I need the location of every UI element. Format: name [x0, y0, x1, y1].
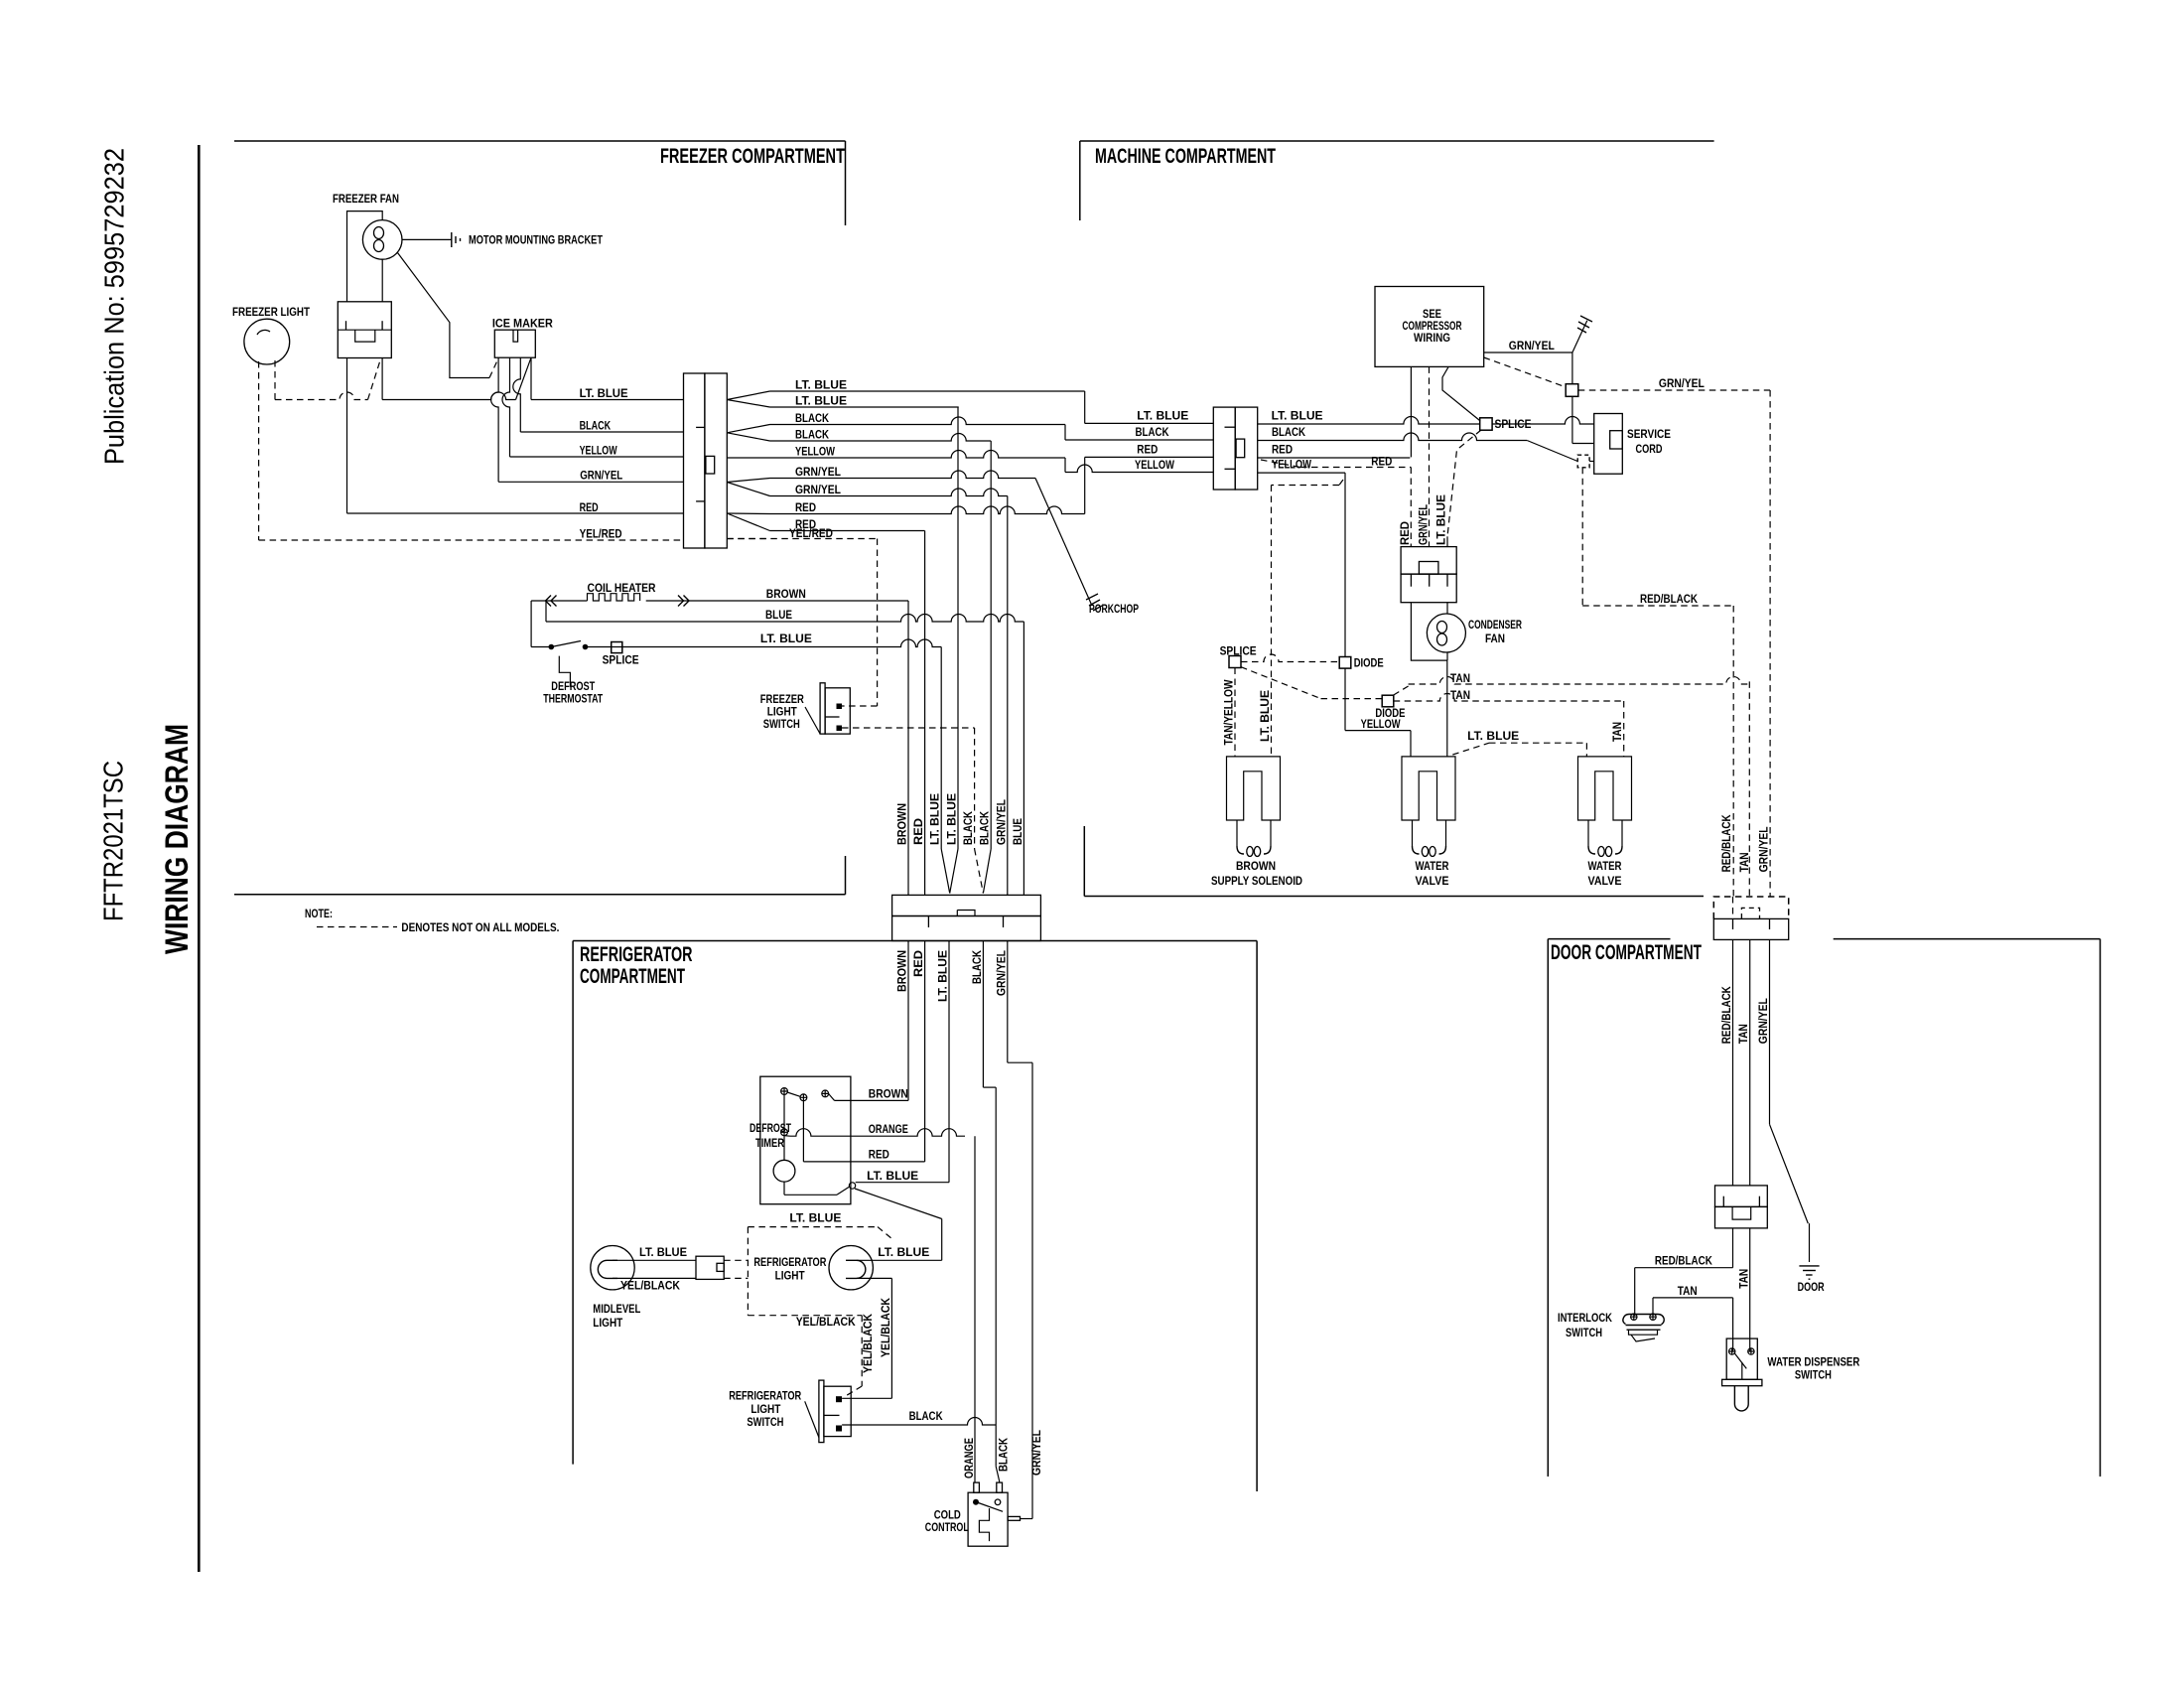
dashed wire TAN/YELLOW splice to solenoid	[1234, 668, 1236, 757]
svg-text:TAN: TAN	[1678, 1286, 1698, 1298]
svg-text:LT. BLUE: LT. BLUE	[947, 793, 959, 845]
freezer light switch divider	[825, 716, 839, 718]
svg-text:LIGHT: LIGHT	[751, 1404, 780, 1416]
wire RED bus to freezer connector	[347, 512, 684, 514]
door compartment border left	[1547, 939, 1549, 1477]
svg-text:ORANGE: ORANGE	[964, 1438, 976, 1478]
door connector dashed shell	[1713, 897, 1788, 918]
svg-text:SERVICE: SERVICE	[1627, 429, 1671, 441]
wire LT.BLUE vertical v3	[940, 647, 942, 850]
svg-text:FAN: FAN	[1485, 633, 1505, 645]
svg-text:LT. BLUE: LT. BLUE	[580, 388, 628, 400]
wire BLACK into cold control	[996, 1467, 999, 1482]
dashed wire TAN lower	[1394, 694, 1624, 701]
dashed wire freezer light to fan connector	[275, 392, 368, 400]
svg-text:BROWN: BROWN	[869, 1089, 908, 1101]
ice maker pin 3 wire to BLACK bus	[513, 357, 520, 432]
svg-text:YELLOW: YELLOW	[795, 447, 835, 459]
svg-text:GRN/YEL: GRN/YEL	[1418, 504, 1430, 545]
wire YEL/RED dashed fan-out	[727, 538, 877, 540]
svg-text:GRN/YEL: GRN/YEL	[1759, 826, 1771, 872]
note dashed sample line	[317, 926, 397, 928]
svg-text:BLACK: BLACK	[1272, 427, 1306, 439]
svg-text:RED/BLACK: RED/BLACK	[1655, 1256, 1713, 1268]
svg-text:BLACK: BLACK	[580, 421, 612, 433]
ice maker pin 2 wire to YELLOW bus	[502, 357, 510, 457]
wire LT.BLUE pin4 to connector	[531, 399, 684, 401]
resistor coil heater	[588, 594, 640, 601]
svg-text:BROWN: BROWN	[1236, 861, 1276, 873]
wire YELLOW connector segment	[1258, 472, 1345, 474]
wire BLACK square to service cord	[1589, 461, 1594, 463]
wire YELLOW bus to connector	[510, 456, 684, 458]
svg-text:DEFROST: DEFROST	[551, 681, 595, 693]
dashed wire TAN upper	[1394, 686, 1409, 695]
refrigerator light switch flange	[819, 1380, 824, 1443]
svg-text:TAN: TAN	[1450, 690, 1470, 702]
refrigerator light switch terminal top	[836, 1396, 842, 1402]
svg-text:RED: RED	[1137, 445, 1158, 457]
chevron left <<	[546, 596, 557, 607]
dashed wire RED to compressor relay	[1261, 460, 1300, 468]
svg-text:BLACK: BLACK	[999, 1437, 1011, 1472]
freezer fan connector divider	[338, 329, 391, 331]
door mid connector upper	[1715, 1186, 1768, 1207]
door mid connector notch	[1732, 1206, 1751, 1219]
svg-text:THERMOSTAT: THERMOSTAT	[543, 694, 603, 706]
refrigerator light lamp symbol	[846, 1260, 866, 1278]
wire TAN to dispenser switch	[1749, 1228, 1751, 1351]
wire LT. BLUE heater line segment b	[586, 639, 942, 647]
refrigerator light switch divider	[824, 1414, 840, 1416]
freezer fan motor windings	[374, 227, 384, 252]
dashed wire GRN/YEL compressor relay lead	[1429, 366, 1431, 546]
wire GRN/YEL down to square	[1571, 352, 1573, 384]
door compartment border top right segment	[1834, 938, 2101, 940]
svg-text:FFTR2021TSC: FFTR2021TSC	[98, 761, 129, 921]
midlevel light lead YEL/BLACK	[613, 1277, 696, 1279]
GRN/YEL junction square	[1566, 384, 1578, 397]
water valve 1 symbol	[1402, 757, 1455, 820]
wire BROWN defrost	[829, 1093, 835, 1100]
cold control terminal right	[995, 1499, 1001, 1505]
connector fan-out triangle GRN/YEL	[727, 479, 769, 496]
svg-text:RED: RED	[913, 818, 925, 845]
svg-text:GRN/YEL: GRN/YEL	[795, 485, 841, 496]
door mid connector tick 1	[1722, 1196, 1724, 1207]
connector fan-out triangle LT. BLUE	[727, 391, 769, 407]
freezer fan connector pin tick left	[345, 321, 347, 330]
door connector body	[1713, 918, 1788, 939]
wire YELLOW step down	[1064, 458, 1066, 473]
wire heater left drop	[530, 601, 532, 647]
svg-text:LT. BLUE: LT. BLUE	[938, 950, 950, 1002]
defrost timer motor wires	[783, 1136, 785, 1161]
condenser fan windings	[1437, 622, 1447, 646]
svg-text:ICE MAKER: ICE MAKER	[492, 318, 554, 330]
connector fan-out triangle RED	[727, 513, 769, 531]
splice square (service cord)	[1480, 418, 1492, 430]
wire RED fan-out 2	[770, 530, 925, 532]
wire GRN/YEL below connector	[1007, 941, 1009, 1063]
refrigerator light lead YEL/BLACK	[857, 1277, 892, 1279]
defrost thermostat contact right	[583, 644, 589, 650]
page divider line	[198, 145, 201, 1572]
freezer fan motor circle	[362, 220, 402, 260]
wire RED/BLACK to interlock	[1732, 1228, 1734, 1268]
water dispenser switch box	[1726, 1338, 1757, 1379]
svg-text:WATER: WATER	[1416, 861, 1450, 873]
defrost timer box	[760, 1076, 851, 1204]
refrigerator light switch body	[824, 1386, 851, 1436]
svg-text:DENOTES NOT ON ALL MODELS.: DENOTES NOT ON ALL MODELS.	[401, 922, 559, 934]
relay tick 3	[1446, 574, 1448, 587]
wire GRN/YEL door	[1769, 939, 1771, 1124]
refrigerator light lead LT.BLUE	[857, 1259, 942, 1261]
cold control right tab	[1008, 1516, 1020, 1520]
defrost timer terminal 4	[781, 1129, 788, 1136]
svg-text:BLACK: BLACK	[963, 810, 975, 845]
svg-text:GRN/YEL: GRN/YEL	[1659, 378, 1705, 390]
svg-text:FREEZER COMPARTMENT: FREEZER COMPARTMENT	[660, 144, 845, 168]
svg-text:SWITCH: SWITCH	[747, 1417, 783, 1429]
machine connector tick lower	[1225, 468, 1236, 470]
freezer-machine connector right half	[705, 373, 727, 548]
wire YELLOW fan-out	[770, 451, 1066, 458]
dashed link fan wire to ice maker pin 1	[489, 358, 498, 378]
splice square (machine left)	[1229, 656, 1241, 668]
svg-text:RED: RED	[1272, 445, 1293, 457]
wire LT.BLUE connector to service cord	[1258, 417, 1594, 424]
condenser fan motor circle	[1427, 614, 1465, 652]
midlevel light connector	[696, 1256, 724, 1279]
svg-text:VALVE: VALVE	[1416, 876, 1449, 888]
porkchop ground symbol	[1086, 594, 1102, 611]
cold control arm	[979, 1503, 1004, 1512]
wire GRN/YEL vertical v7	[1007, 496, 1009, 896]
defrost timer terminal 1	[781, 1088, 788, 1095]
defrost timer motor circle	[773, 1160, 795, 1182]
wire BLUE branch drop	[545, 601, 547, 622]
wire BLUE line	[546, 615, 1024, 622]
dashed wire GRN/YEL to door	[1578, 389, 1770, 391]
ice maker body	[494, 330, 535, 357]
plug square on BLACK	[1577, 455, 1589, 468]
wire GRN/YEL fan-out 1	[770, 471, 1036, 478]
svg-text:RED: RED	[913, 950, 925, 977]
door connector dashed notch	[1741, 908, 1759, 918]
svg-text:FREEZER FAN: FREEZER FAN	[333, 194, 399, 206]
machine compartment border bottom	[1084, 896, 1704, 898]
wire relay LT.BLUE lead	[1446, 536, 1448, 546]
svg-text:YELLOW: YELLOW	[1272, 460, 1311, 472]
freezer compartment border top	[234, 140, 846, 142]
dashed wire switch bottom to BLACK v5	[842, 727, 975, 729]
svg-text:SPLICE: SPLICE	[1220, 646, 1257, 658]
freezer light lead LT.BLUE (dashed)	[274, 360, 276, 400]
wire GRN/YEL porkchop diagonal	[1035, 479, 1092, 607]
svg-text:GRN/YEL: GRN/YEL	[1031, 1430, 1043, 1476]
dashed wire YEL/BLACK	[748, 1315, 862, 1317]
wire RED step up	[1084, 457, 1086, 513]
freezer-machine connector notch	[706, 456, 715, 474]
freezer light lead YEL/RED (dashed)	[258, 361, 260, 540]
compressor relay box upper	[1401, 547, 1456, 575]
svg-text:VALVE: VALVE	[1588, 876, 1622, 888]
machine connector notch	[1236, 439, 1245, 458]
door ground symbol	[1799, 1266, 1819, 1279]
svg-text:CONDENSER: CONDENSER	[1468, 620, 1523, 632]
freezer compartment border right upper	[845, 141, 847, 225]
wire BROWN below connector	[907, 941, 909, 1101]
svg-text:DIODE: DIODE	[1375, 708, 1405, 720]
door mid connector lower	[1715, 1206, 1768, 1228]
svg-text:RED/BLACK: RED/BLACK	[1640, 594, 1699, 606]
wire T2 to RED	[802, 1101, 804, 1162]
svg-text:WATER DISPENSER: WATER DISPENSER	[1767, 1357, 1860, 1369]
machine compartment border top	[1080, 140, 1714, 142]
svg-text:GRN/YEL: GRN/YEL	[1758, 998, 1770, 1044]
svg-text:MIDLEVEL: MIDLEVEL	[593, 1304, 640, 1316]
wire compressor left lead	[1410, 366, 1412, 457]
refrigerator connector tick right	[1003, 916, 1005, 928]
freezer light switch lever	[805, 707, 820, 734]
svg-text:GRN/YEL: GRN/YEL	[580, 471, 622, 483]
svg-text:LIGHT: LIGHT	[767, 707, 797, 719]
machine connector right half	[1235, 407, 1258, 490]
connector fan-out YEL/RED dashed stub	[727, 538, 769, 540]
dashed wire LT.BLUE valve to valve	[1452, 743, 1489, 755]
svg-text:SPLICE: SPLICE	[603, 655, 639, 667]
compressor wiring box	[1375, 287, 1484, 367]
svg-text:BLACK: BLACK	[909, 1411, 944, 1423]
svg-text:DOOR COMPARTMENT: DOOR COMPARTMENT	[1551, 940, 1702, 964]
freezer compartment border right lower	[845, 856, 847, 895]
svg-text:LT. BLUE: LT. BLUE	[867, 1171, 918, 1183]
svg-text:RED: RED	[1400, 521, 1412, 545]
svg-text:SWITCH: SWITCH	[1795, 1370, 1832, 1382]
interlock switch terminal left	[1631, 1314, 1637, 1320]
wire LT.BLUE bus segment	[382, 392, 515, 400]
refrigerator compartment border right	[1256, 941, 1258, 1492]
defrost thermostat body bracket	[559, 656, 570, 687]
svg-text:DIODE: DIODE	[1354, 658, 1384, 670]
chevron right >>	[678, 596, 689, 607]
wire RED defrost	[803, 1161, 924, 1163]
defrost timer terminal 3	[822, 1090, 829, 1097]
splice square (defrost)	[612, 642, 622, 653]
svg-text:COLD: COLD	[934, 1510, 961, 1522]
wire BROWN vertical v1	[907, 601, 909, 895]
svg-text:TAN: TAN	[1612, 722, 1624, 742]
svg-text:SUPPLY SOLENOID: SUPPLY SOLENOID	[1211, 876, 1302, 888]
svg-text:LT. BLUE: LT. BLUE	[760, 633, 812, 645]
defrost thermostat contact left	[549, 644, 555, 650]
refrigerator connector lower	[892, 916, 1041, 941]
dashed wire YEL/RED to switch top	[877, 539, 879, 707]
wire GRN/YEL square to service cord	[1571, 396, 1573, 443]
svg-text:TAN: TAN	[1450, 673, 1470, 685]
dashed wire LT.BLUE light circuit	[748, 1226, 878, 1228]
svg-text:COMPARTMENT: COMPARTMENT	[580, 964, 685, 988]
service cord notch	[1610, 431, 1623, 449]
cold control terminal left	[973, 1499, 979, 1505]
svg-text:SWITCH: SWITCH	[1566, 1328, 1602, 1339]
service cord body	[1594, 414, 1623, 475]
svg-text:RED: RED	[869, 1150, 889, 1162]
wire LT.BLUE vertical v4	[957, 407, 959, 849]
freezer-machine connector tick lower	[696, 500, 705, 502]
svg-text:NOTE:: NOTE:	[305, 909, 333, 920]
svg-text:FREEZER LIGHT: FREEZER LIGHT	[232, 307, 310, 319]
dashed wire RED/BLACK door drop	[1732, 897, 1734, 918]
wire RED below connector	[924, 941, 926, 1162]
midlevel light lead LT.BLUE	[613, 1259, 696, 1261]
door compartment border top left segment	[1548, 938, 1670, 940]
svg-text:LT. BLUE: LT. BLUE	[795, 396, 847, 408]
wire LT.BLUE step down	[1084, 391, 1086, 423]
svg-text:BLUE: BLUE	[1013, 818, 1024, 845]
machine connector left half	[1213, 407, 1235, 490]
svg-text:RED: RED	[795, 502, 816, 514]
wire fan connector left lead to RED bus	[346, 358, 348, 514]
interlock switch terminal right	[1650, 1314, 1656, 1320]
door connector tick 1	[1732, 918, 1734, 929]
svg-text:TAN/YELLOW: TAN/YELLOW	[1224, 679, 1236, 745]
dashed wire solenoid LT.BLUE lead	[1339, 480, 1343, 486]
svg-text:LT. BLUE: LT. BLUE	[1260, 690, 1272, 742]
svg-text:LT. BLUE: LT. BLUE	[1467, 731, 1519, 743]
wire LT.BLUE bus diagonal to ice maker pin 4	[516, 357, 532, 399]
freezer light filament arc	[257, 330, 270, 335]
freezer light switch body	[825, 688, 850, 734]
water valve 2 symbol	[1578, 757, 1632, 820]
dashed wire TAN door drop	[1748, 681, 1750, 897]
midlevel light lamp symbol	[598, 1260, 617, 1278]
freezer fan loop wires	[347, 211, 383, 302]
svg-text:BLACK: BLACK	[795, 430, 830, 442]
svg-text:MOTOR MOUNTING BRACKET: MOTOR MOUNTING BRACKET	[469, 235, 603, 247]
svg-text:LT. BLUE: LT. BLUE	[789, 1213, 841, 1225]
defrost timer arm	[787, 1092, 800, 1096]
wire RED vertical v2	[924, 531, 926, 896]
wire LT. BLUE fan-out 2	[770, 406, 959, 408]
defrost timer terminal 2	[800, 1094, 807, 1101]
defrost timer output node	[849, 1183, 855, 1189]
svg-text:DOOR: DOOR	[1798, 1282, 1826, 1294]
wire motor mounting bracket	[402, 238, 452, 240]
svg-text:SPLICE: SPLICE	[1495, 419, 1532, 431]
svg-text:GRN/YEL: GRN/YEL	[996, 950, 1008, 996]
door connector tick 2	[1769, 918, 1771, 929]
svg-text:Publication No: 5995729232: Publication No: 5995729232	[99, 148, 130, 465]
svg-text:GRN/YEL: GRN/YEL	[1509, 341, 1555, 352]
wire BLACK step down	[1064, 425, 1066, 441]
svg-text:WATER: WATER	[1588, 861, 1623, 873]
svg-text:YEL/BLACK: YEL/BLACK	[796, 1317, 857, 1329]
freezer-machine connector left half	[684, 373, 705, 548]
water dispenser switch terminal right	[1748, 1348, 1754, 1354]
door compartment border right	[2100, 939, 2102, 1477]
svg-text:CORD: CORD	[1636, 444, 1663, 456]
svg-text:BLACK: BLACK	[972, 949, 984, 984]
svg-text:YELLOW: YELLOW	[1135, 460, 1174, 472]
svg-text:TAN: TAN	[1738, 1269, 1750, 1289]
svg-text:LIGHT: LIGHT	[775, 1271, 805, 1283]
wire BLACK below connector	[982, 941, 984, 1088]
svg-text:REFRIGERATOR: REFRIGERATOR	[753, 1257, 827, 1269]
wire TAN door	[1749, 939, 1751, 1186]
door mid connector tick 2	[1758, 1196, 1760, 1207]
wire GRN/YEL compressor	[1484, 352, 1572, 353]
svg-text:FREEZER: FREEZER	[760, 694, 805, 706]
wire BLUE vertical v8	[1023, 622, 1024, 895]
wire condenser fan to valve	[1446, 660, 1448, 757]
wire BLACK dashed vertical v5	[974, 728, 976, 849]
svg-text:YEL/BLACK: YEL/BLACK	[881, 1297, 892, 1357]
svg-text:YEL/RED: YEL/RED	[789, 528, 833, 540]
wire RED/BLACK door	[1732, 939, 1734, 1186]
freezer light switch terminal bottom	[837, 726, 843, 732]
svg-text:WIRING: WIRING	[1414, 333, 1450, 345]
svg-text:SWITCH: SWITCH	[763, 719, 800, 731]
svg-text:INTERLOCK: INTERLOCK	[1558, 1313, 1613, 1325]
refrigerator compartment border left	[572, 941, 574, 1465]
water dispenser switch arm	[1734, 1353, 1746, 1369]
freezer light bulb circle	[244, 319, 290, 364]
water dispenser switch plunger	[1734, 1386, 1748, 1411]
svg-text:LT. BLUE: LT. BLUE	[795, 380, 847, 392]
freezer fan connector notch	[355, 330, 375, 342]
refrigerator light bulb circle	[829, 1246, 873, 1290]
connector fan-out triangle BLACK	[727, 425, 769, 442]
svg-text:GRN/YEL: GRN/YEL	[795, 467, 841, 479]
svg-text:BLACK: BLACK	[795, 413, 830, 425]
connector fan-out YELLOW stub	[727, 457, 769, 459]
svg-text:LIGHT: LIGHT	[593, 1318, 622, 1330]
ice maker notch	[513, 330, 518, 342]
diode 1 square	[1339, 657, 1351, 669]
svg-text:LT. BLUE: LT. BLUE	[878, 1247, 929, 1259]
wire YELLOW diode to valve	[1344, 668, 1346, 731]
dashed wire splice diagonal to diode2	[1241, 667, 1321, 699]
svg-text:GRN/YEL: GRN/YEL	[996, 799, 1008, 845]
svg-text:ORANGE: ORANGE	[869, 1124, 908, 1136]
machine compartment border left upper	[1079, 141, 1081, 220]
svg-text:BLACK: BLACK	[1136, 427, 1170, 439]
svg-text:BROWN: BROWN	[766, 589, 806, 601]
svg-text:RED/BLACK: RED/BLACK	[1721, 986, 1733, 1045]
svg-text:LT. BLUE: LT. BLUE	[1436, 494, 1448, 545]
svg-text:YEL/BLACK: YEL/BLACK	[863, 1313, 875, 1373]
wire RED fan-out 1	[770, 506, 1085, 514]
cold control box	[968, 1492, 1008, 1546]
ground hash marks (service)	[1577, 316, 1592, 333]
wire BLACK fan-out 1	[770, 417, 1066, 424]
svg-text:BLACK: BLACK	[980, 810, 992, 845]
wire GRN/YEL to cold control tab	[1021, 1518, 1033, 1520]
condenser fan loop	[1411, 603, 1447, 660]
svg-text:BROWN: BROWN	[897, 803, 909, 845]
freezer-machine connector tick upper	[696, 426, 705, 428]
svg-text:LT. BLUE: LT. BLUE	[1272, 411, 1323, 423]
freezer fan connector body	[338, 302, 391, 358]
ice maker pin 1 wire to GRN/YEL bus	[491, 357, 498, 482]
wire LT. BLUE fan-out 1	[770, 390, 1085, 392]
wire BLACK bus to connector	[520, 431, 683, 433]
wire LT.BLUE below connector	[948, 941, 950, 1183]
wire freezer fan to connector	[381, 259, 383, 302]
